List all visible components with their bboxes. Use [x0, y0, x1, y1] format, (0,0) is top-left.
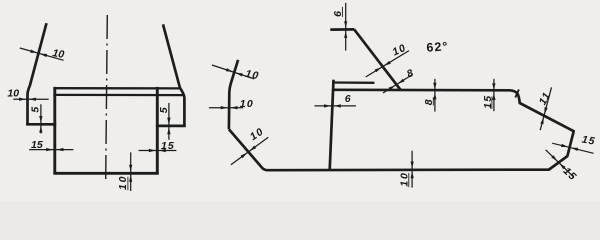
dimension line 11 (rear upper slanted plate) [540, 87, 551, 130]
dimension line 15 (rear lower slanted plate) [546, 150, 574, 177]
arrowheads for dim 5 (left sponson floor) [39, 116, 42, 123]
arrowheads for dim 11 (rear upper slanted plate) [544, 107, 547, 114]
arrowheads for dim 10 (hull bottom, left view) [129, 165, 132, 172]
dimension line 6 (cab top plate) [345, 3, 347, 51]
svg-text:10: 10 [51, 47, 65, 61]
dimension line 10 (left slanted plate) [20, 48, 64, 60]
dimension line 5 (left sponson floor) [40, 104, 42, 133]
svg-text:62°: 62° [426, 39, 449, 55]
svg-text:10: 10 [7, 87, 19, 99]
arrowheads for dim 8 (deck plate) [433, 83, 436, 90]
dimension line 10 (left vertical plate) [13, 98, 48, 100]
left view: hull right wall [156, 87, 159, 175]
svg-text:6: 6 [345, 93, 351, 105]
underline for label 10 (hull bottom, side view) [408, 173, 410, 187]
dimension line 10 (lower bow slanted plate) [231, 137, 268, 164]
underline for label 10 (hull bottom, left view) [127, 177, 129, 191]
left view: right sponson floor plate [156, 125, 186, 128]
arrowheads for dim 15 (rear wall plate) [561, 144, 568, 147]
dimension line 15 (hull right wall) [139, 150, 177, 152]
underline for label 6 (cab top plate) [341, 7, 343, 17]
side view: glacis plate (62 deg) [354, 29, 400, 89]
dimension line 10 (hull bottom, left view) [130, 152, 132, 191]
side view: bracket at rear deck corner [515, 90, 519, 98]
side view: cab top plate [330, 28, 354, 31]
svg-text:5: 5 [158, 107, 170, 113]
svg-text:5: 5 [29, 107, 41, 113]
arrowheads for dim 15 (hull right wall) [149, 149, 156, 152]
left view: left upper slanted side plate [28, 23, 47, 125]
svg-text:15: 15 [31, 139, 43, 151]
arrowheads for dim 6 (cab top plate) [344, 21, 347, 28]
arrowheads for dim 6 (superstructure front wall) [324, 104, 331, 107]
dimension line 15 (rear deck plate) [493, 79, 495, 111]
dimension line 5 (right sponson floor) [168, 103, 170, 140]
arrowheads for dim 10 (bow vertical plate) [221, 106, 228, 109]
svg-text:15: 15 [581, 134, 597, 148]
svg-text:10: 10 [117, 175, 129, 190]
underline for label 15 (rear deck plate) [491, 97, 493, 109]
underline for label 8 (deck plate) [432, 97, 434, 105]
dimension line 10 (bow upper plate) [212, 65, 254, 79]
dimension line 15 (rear wall plate) [552, 143, 593, 153]
arrowheads for dim 10 (left vertical plate) [19, 98, 26, 101]
left view: left sponson floor plate [26, 123, 56, 126]
left view: roof plate top line [53, 87, 179, 90]
dimension line 6 (superstructure front wall) [315, 105, 356, 107]
arrowheads for dim 10 (bow upper plate) [226, 68, 233, 72]
arrowheads for dim 10 (left slanted plate) [30, 50, 37, 53]
arrowheads for dim 5 (right sponson floor) [167, 118, 170, 125]
left view: hull bottom plate [53, 172, 158, 175]
left view: hull left wall [53, 87, 56, 175]
arrowheads for dim 10 (lower bow slanted plate) [241, 153, 248, 158]
arrowheads for dim 8 (glacis lower edge) [389, 85, 396, 90]
left view: roof plate bottom line [53, 94, 184, 96]
dimension line 8 (deck plate) [434, 79, 436, 112]
arrowheads for dim 15 (rear deck plate) [492, 83, 495, 90]
svg-text:10: 10 [240, 98, 254, 110]
side view: bow front plate [229, 60, 238, 129]
side view: superstructure roof top line [332, 81, 374, 84]
svg-text:15: 15 [161, 140, 175, 152]
side view: superstructure front wall [330, 80, 334, 170]
dimension line 10 (glacis plate) [366, 51, 409, 77]
dimension line 10 (bow vertical plate) [209, 107, 243, 109]
dimension line 8 (glacis lower edge) [383, 75, 413, 94]
arrowheads for dim 15 (rear lower slanted plate) [551, 155, 557, 161]
arrowheads for dim 10 (glacis plate) [375, 67, 382, 72]
dimension line 10 (hull bottom, side view) [411, 151, 413, 188]
left view: right upper slanted side plate [163, 24, 184, 126]
side view: hull outline (lower bow, bottom, rear plates) [229, 90, 574, 170]
dimension line 15 (hull left wall) [29, 149, 73, 151]
arrowheads for dim 10 (hull bottom, side view) [411, 162, 414, 169]
centerline (axis of symmetry) [106, 15, 108, 180]
arrowheads for dim 15 (hull left wall) [46, 148, 53, 151]
